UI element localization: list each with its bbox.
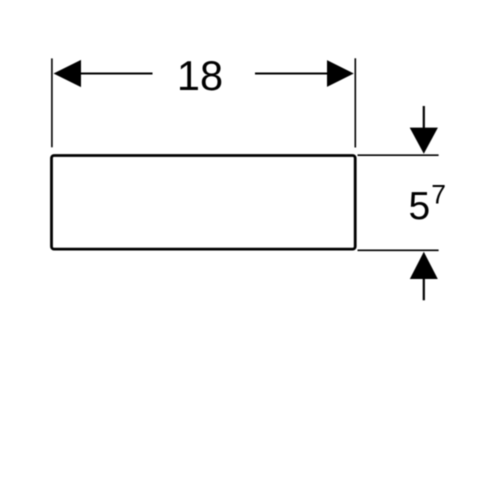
svg-text:18: 18 [177, 52, 223, 99]
extension line bottom (height dim) [358, 249, 439, 251]
arrowhead left (points left) [54, 60, 82, 87]
bottom arrow stem [423, 278, 425, 300]
arrowhead up (bottom of height dim) [410, 252, 438, 279]
extension line top (height dim) [358, 154, 439, 156]
extension line right (width dim) [354, 58, 356, 147]
extension line left (width dim) [51, 58, 53, 147]
arrowhead right (points right) [327, 60, 354, 87]
dimension line left segment [79, 73, 153, 75]
svg-text:5: 5 [409, 185, 431, 228]
svg-text:7: 7 [431, 180, 446, 210]
arrowhead down (top of height dim) [410, 128, 438, 154]
dimension line right segment [255, 73, 329, 75]
product outline rectangle [52, 156, 356, 250]
top arrow stem [423, 106, 425, 129]
